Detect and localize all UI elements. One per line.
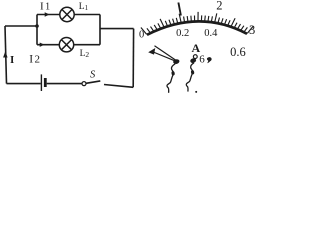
wire right middle horizontal (100, 28, 134, 30)
current arrow I1 (45, 12, 50, 16)
battery long plate (40, 74, 42, 91)
svg-text:L1: L1 (79, 2, 89, 12)
wire right vertical (132, 29, 134, 88)
svg-text:0.2: 0.2 (176, 28, 189, 39)
switch lever (86, 81, 100, 83)
node junction dot left (35, 24, 39, 28)
ammeter scale arc (147, 21, 247, 34)
lamp L2 (59, 38, 73, 52)
svg-text:0: 0 (139, 30, 144, 41)
meter needle (148, 46, 176, 62)
lamp L1 (60, 7, 74, 21)
wire bottom right (104, 85, 133, 88)
wire bottom branch (37, 44, 100, 46)
current arrow I on left wire (3, 51, 8, 57)
ammeter scale ticks (141, 12, 253, 35)
svg-text:I1: I1 (40, 1, 50, 13)
svg-text:I: I (10, 54, 14, 66)
svg-text:3: 3 (249, 23, 255, 37)
ammeter scale tick value-1 thick (178, 3, 181, 16)
meter right pigtail wire (186, 63, 194, 92)
meter left pigtail wire (167, 64, 175, 93)
svg-text:L2: L2 (80, 49, 90, 59)
meter right terminal post (190, 57, 197, 63)
svg-text:I2: I2 (29, 53, 40, 65)
meter left terminal post (173, 59, 180, 65)
svg-text:2: 2 (216, 0, 222, 13)
switch S pivot (82, 82, 86, 86)
svg-text:0.6: 0.6 (230, 45, 246, 59)
wire right branch vertical (99, 15, 101, 45)
wire battery to switch (47, 83, 82, 85)
wire left branch vertical (36, 15, 38, 45)
svg-text:S: S (90, 69, 96, 80)
meter pigtail end dot (195, 91, 197, 93)
svg-text:0.4: 0.4 (204, 28, 218, 39)
wire left vertical (5, 26, 7, 84)
wire top branch (37, 14, 100, 16)
meter right terminal ring (193, 55, 197, 59)
meter terminal blob 3 (207, 57, 212, 63)
battery short plate (44, 78, 47, 87)
current arrow I2 (40, 43, 45, 47)
svg-text:6: 6 (199, 53, 205, 65)
wire left middle horizontal (5, 25, 37, 27)
wire bottom left (7, 83, 41, 85)
